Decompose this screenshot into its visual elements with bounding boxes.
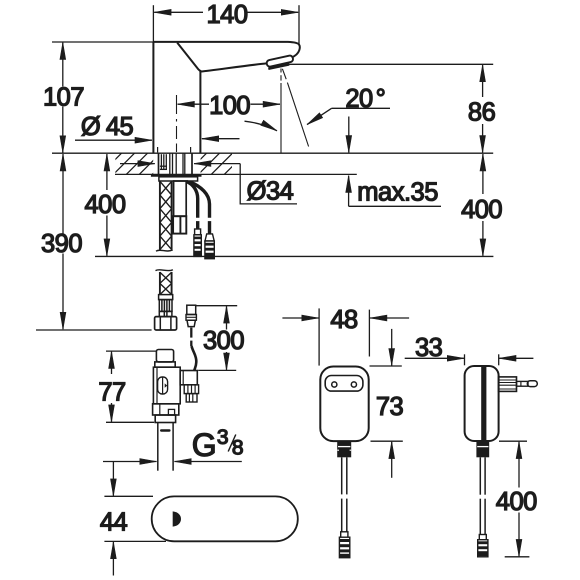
svg-text:33: 33 [415,334,443,362]
faucet shank through counter [159,153,193,174]
faucet body outline [153,42,299,153]
dim 44 [100,461,166,575]
euro socket recess [325,376,363,392]
long reference line below counter [95,255,493,257]
dim 400 bottom right [496,441,537,557]
svg-text:Ø: Ø [81,113,100,141]
svg-text:77: 77 [98,379,125,407]
hose end reference line [36,329,152,331]
counter hatching [100,153,246,175]
counter bottom line [115,173,357,175]
sensor cable 1 [187,182,202,257]
dim 48 [282,306,409,366]
dim 300 [195,306,244,371]
dim 390 [41,154,82,329]
svg-text:G: G [192,427,216,463]
control cable plug for 300 [186,305,196,346]
power supply side view [465,366,538,557]
svg-text:86: 86 [468,99,496,127]
pin holes [332,382,337,387]
solenoid housing on valve [180,371,197,385]
svg-text:73: 73 [376,393,404,421]
dim G3/8 [103,426,243,463]
dim 86 [468,65,496,152]
svg-text:400: 400 [461,196,502,224]
spray axis vertical line [280,69,282,153]
escutcheon capsule [152,496,298,541]
spout tip reference line [289,63,493,65]
shut-off valve assembly [153,346,199,423]
dim diameter 34 [120,164,297,206]
svg-text:400: 400 [496,488,537,516]
aerator [266,55,293,69]
valve cable [192,346,197,371]
seam band [481,367,486,441]
sensor window [173,511,181,526]
valve bottom nut [153,404,179,415]
outlet pipe G3/8 [158,423,173,471]
svg-text:107: 107 [43,84,84,112]
dim 400 right [461,154,502,256]
cable front [341,457,343,494]
cable connector front [341,532,348,537]
dim 107 [43,43,84,153]
svg-text:3: 3 [217,426,228,449]
dim diameter 45 [75,113,240,141]
dim max.35 [349,117,441,207]
svg-text:8: 8 [232,437,243,460]
hose end fittings [155,295,177,330]
dim 73 [370,329,404,478]
svg-text:390: 390 [41,230,82,258]
svg-text:Ø34: Ø34 [247,178,294,206]
faucet centerline [176,95,178,152]
svg-text:140: 140 [206,1,247,29]
strain relief side [476,441,489,457]
counter top line [52,152,493,154]
sensor cable 2 [190,182,214,259]
cable connector side [479,535,486,540]
svg-text:44: 44 [100,508,128,536]
svg-text:max.35: max.35 [357,179,438,207]
dim 100 [178,92,281,120]
dim 33 [405,334,534,365]
dim 140 [153,1,299,45]
faucet base ring ticks [158,147,191,152]
cable side [479,457,481,494]
dim 77 [98,351,156,422]
escutcheon flange under counter [151,176,202,181]
strain relief front [337,441,351,457]
power supply front view [320,367,368,558]
svg-text:100: 100 [209,92,250,120]
svg-text:48: 48 [330,306,358,334]
dim 400 left [84,154,125,256]
svg-text:400: 400 [84,191,125,219]
dim 20 degrees [245,85,391,131]
braided supply hose lower segment [156,270,173,295]
outlet tube and junction box [173,181,186,234]
plug pin [517,381,529,386]
braided supply hose upper segment [156,181,173,251]
spray axis 20 deg dashed line [282,69,308,147]
plug collar [499,377,517,392]
svg-text:45: 45 [106,113,134,141]
svg-text:300: 300 [203,327,244,355]
faucet top extension line [52,41,154,43]
